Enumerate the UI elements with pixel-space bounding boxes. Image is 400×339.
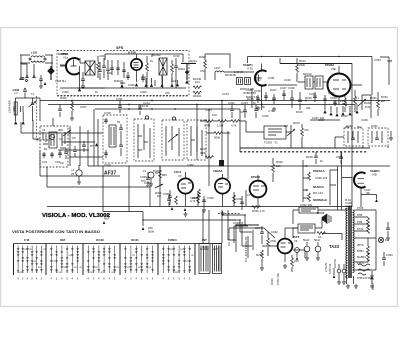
svg-text:R7: R7	[90, 144, 94, 148]
bus wire B	[48, 104, 355, 106]
junction dots mid bus	[128, 108, 176, 110]
grounds under box	[120, 83, 179, 87]
INT box 2	[213, 244, 222, 274]
arrow L300	[103, 221, 106, 224]
resistor R312 zig	[205, 156, 213, 159]
svg-text:C317: C317	[280, 86, 287, 90]
ground 35T6	[283, 264, 287, 268]
svg-text:5/10: 5/10	[146, 184, 152, 188]
stepped wires volume	[222, 215, 258, 243]
svg-text:L36: L36	[33, 261, 36, 263]
svg-text:12k: 12k	[276, 164, 281, 168]
svg-text:C360: C360	[187, 163, 194, 167]
svg-text:S34: S34	[74, 267, 77, 269]
keyboard top rail	[14, 243, 223, 245]
svg-text:470k: 470k	[270, 239, 277, 243]
label C327 row	[310, 119, 340, 121]
box A parts	[348, 131, 358, 143]
svg-text:C321: C321	[328, 91, 335, 95]
svg-text:C352 100: C352 100	[300, 203, 313, 207]
keyboard contact columns	[17, 246, 194, 275]
cap C361	[168, 196, 172, 197]
svg-text:PAROLA: PAROLA	[313, 169, 325, 173]
svg-text:C323: C323	[241, 101, 248, 105]
svg-text:1,5M: 1,5M	[217, 124, 224, 128]
wires 6TB32	[298, 64, 362, 86]
ground left a	[39, 84, 43, 88]
svg-text:F M: F M	[24, 238, 30, 242]
svg-text:L35: L35	[132, 255, 135, 257]
tap resistors	[367, 218, 370, 226]
resistor R330	[272, 164, 275, 172]
osc cluster circle	[49, 134, 54, 139]
svg-text:C8: C8	[72, 136, 76, 140]
svg-text:C319: C319	[284, 78, 291, 82]
svg-text:C9: C9	[60, 161, 64, 165]
capacitor C305	[81, 79, 85, 80]
svg-text:L302 5H: L302 5H	[55, 79, 66, 83]
ground electrolytic	[77, 180, 81, 184]
svg-text:54: 54	[117, 120, 121, 124]
svg-text:4,7k: 4,7k	[231, 124, 237, 128]
svg-text:C327: C327	[318, 118, 325, 122]
svg-text:50uF: 50uF	[314, 238, 321, 242]
svg-text:AF37: AF37	[104, 171, 116, 177]
svg-text:4,7k: 4,7k	[268, 109, 274, 113]
svg-text:C4: C4	[59, 137, 63, 141]
top mid extra strings	[290, 90, 302, 110]
cathode resistor	[291, 258, 294, 266]
IF3 arrow	[166, 126, 179, 156]
wires R row	[200, 120, 246, 122]
svg-text:R316: R316	[296, 110, 303, 114]
svg-text:R38: R38	[170, 249, 173, 251]
svg-text:MuF: MuF	[104, 217, 110, 221]
svg-text:C329: C329	[361, 118, 368, 122]
resistor R323	[377, 100, 380, 108]
tube 12BA6	[215, 178, 230, 193]
svg-text:R320: R320	[341, 114, 348, 118]
resistor R402	[175, 196, 178, 204]
rectifier diode	[370, 276, 374, 279]
eye tube 5GBP1 lower	[354, 172, 366, 187]
svg-text:1M: 1M	[381, 99, 386, 103]
svg-text:MUSICA: MUSICA	[313, 185, 324, 189]
svg-text:E313: E313	[371, 283, 375, 290]
arrow down T	[185, 80, 189, 84]
resistor R309	[204, 60, 207, 68]
T junction after box	[181, 63, 196, 80]
filled connector block	[219, 160, 224, 167]
svg-text:6,3: 6,3	[385, 238, 389, 242]
svg-text:R317: R317	[270, 88, 277, 92]
svg-text:L39: L39	[148, 267, 151, 269]
resistor R321	[354, 96, 357, 104]
resistor zig a	[193, 86, 201, 89]
osc caps	[42, 150, 62, 158]
ground in box	[81, 84, 85, 88]
svg-text:22k: 22k	[306, 106, 311, 110]
dashed bus bottom	[57, 95, 189, 97]
svg-text:470: 470	[165, 91, 170, 95]
mains wires	[339, 264, 354, 284]
resistor R328	[233, 195, 236, 203]
svg-text:S35: S35	[138, 267, 141, 269]
coil L301	[20, 55, 53, 63]
resistor R305	[205, 120, 213, 123]
cap right rail	[386, 228, 390, 229]
svg-text:50k: 50k	[357, 125, 362, 129]
IF trafo box right	[305, 76, 323, 89]
svg-text:C1: C1	[42, 128, 46, 132]
svg-text:C314: C314	[240, 110, 247, 114]
svg-text:C328: C328	[330, 96, 337, 100]
tube 35T6 wires	[229, 228, 305, 258]
svg-text:C334: C334	[236, 197, 243, 201]
mixer dots	[69, 132, 89, 158]
svg-text:6TB: 6TB	[357, 213, 362, 217]
junction dots bus	[71, 100, 307, 106]
wire switch right	[330, 170, 338, 205]
ground t1	[14, 121, 17, 124]
electrolytic C351	[315, 246, 321, 252]
svg-text:NORMALE: NORMALE	[313, 198, 327, 202]
dashed IF box 4	[187, 120, 206, 160]
svg-text:R30: R30	[120, 81, 126, 85]
svg-text:0,5M: 0,5M	[268, 76, 275, 80]
bus wire A	[40, 100, 390, 102]
ground diode	[370, 284, 374, 288]
svg-text:C324: C324	[205, 108, 212, 112]
svg-text:25: 25	[71, 172, 75, 176]
svg-text:R325 4,7k: R325 4,7k	[252, 209, 265, 213]
svg-text:L307: L307	[214, 66, 221, 70]
resistor R euro style	[14, 102, 17, 115]
svg-text:560k: 560k	[214, 136, 221, 140]
wires inside box left	[58, 54, 105, 88]
svg-text:MF302: MF302	[152, 53, 161, 57]
fuse a	[337, 269, 341, 273]
svg-text:470k: 470k	[12, 105, 16, 112]
svg-text:C326: C326	[262, 114, 269, 118]
electrolytic +3	[76, 170, 82, 176]
pot P303	[287, 125, 295, 140]
caps cluster mid	[256, 90, 286, 104]
TA33 secondary winding	[353, 210, 355, 273]
grounds under 6TB32 (arrow style)	[323, 110, 358, 116]
svg-text:C318: C318	[288, 86, 295, 90]
pot arrow P302	[358, 95, 366, 110]
IF1 caps	[104, 118, 123, 158]
dashed IF box 1	[103, 115, 127, 163]
mixer trimmer arrow	[63, 130, 71, 136]
cap C347	[366, 193, 370, 194]
svg-text:C312: C312	[143, 101, 150, 105]
TA33 core	[349, 206, 351, 278]
tube 6TB32 top	[328, 74, 351, 97]
bus wire mid	[95, 108, 240, 110]
svg-text:L34: L34	[79, 267, 82, 269]
speaker	[322, 214, 327, 224]
trimmer marks	[21, 106, 24, 112]
IF transformer MF301	[85, 61, 95, 75]
switch arrows	[306, 165, 308, 191]
svg-text:220: 220	[294, 259, 299, 263]
svg-text:C37: C37	[43, 249, 46, 251]
svg-text:R313: R313	[293, 121, 300, 125]
heater squiggles	[358, 264, 370, 275]
svg-text:R31: R31	[29, 249, 32, 251]
svg-text:R31: R31	[180, 249, 183, 251]
resistor R311	[301, 128, 304, 136]
cap on antenna wire	[23, 90, 27, 91]
svg-text:5GBP1: 5GBP1	[357, 255, 366, 259]
svg-text:R1010: R1010	[193, 94, 202, 98]
svg-text:1M: 1M	[157, 194, 162, 198]
svg-text:C34: C34	[68, 255, 71, 257]
coil L307	[215, 71, 232, 80]
svg-text:L3: L3	[143, 169, 147, 173]
trimmer caps row under tube V2	[110, 60, 126, 78]
svg-text:6T06: 6T06	[357, 206, 364, 210]
ground arrows 12C4	[171, 207, 187, 211]
resistor R329 zig	[252, 206, 260, 209]
resistor R310	[296, 64, 299, 72]
grounds tube row	[184, 212, 188, 216]
pilot lamp	[378, 237, 383, 242]
heater taps	[355, 210, 377, 270]
resistor zig b	[193, 91, 201, 94]
svg-text:C352 10k: C352 10k	[276, 272, 280, 285]
svg-text:V5b: V5b	[331, 67, 336, 71]
svg-text:C342: C342	[271, 230, 278, 234]
bus AF37	[88, 165, 390, 167]
svg-text:ALT: ALT	[213, 247, 218, 251]
IF transformer MF302	[159, 58, 167, 75]
svg-text:+C: +C	[14, 91, 18, 95]
osc wires	[33, 118, 150, 187]
arrow C347	[375, 199, 378, 202]
extra cap string top box	[98, 62, 102, 80]
circled node 6	[145, 116, 148, 119]
svg-text:S3B: S3B	[387, 59, 392, 63]
keyboard feed verticals	[203, 210, 236, 243]
svg-text:6TB4: 6TB4	[357, 249, 364, 253]
svg-text:C347: C347	[364, 188, 371, 192]
svg-text:R300: R300	[60, 96, 67, 100]
wires wave boxes	[335, 137, 388, 148]
svg-text:C33: C33	[116, 267, 119, 269]
osc cluster marks	[43, 132, 66, 148]
hanging cap under bus	[58, 105, 62, 118]
mixer coupling wires	[58, 126, 103, 166]
box C100 upper	[299, 207, 318, 213]
tube V1 6TB (C shape)	[66, 58, 80, 74]
svg-text:RO-134: RO-134	[313, 191, 323, 195]
dashed IF box 2	[134, 119, 154, 161]
ground t2	[22, 121, 25, 124]
svg-text:R38: R38	[63, 267, 66, 269]
caps under 6TB32	[313, 92, 337, 106]
svg-text:1M: 1M	[284, 124, 289, 128]
svg-text:100: 100	[212, 113, 217, 117]
trimmer arrow 12C4	[155, 184, 163, 188]
junction dots top wire	[261, 56, 340, 58]
svg-text:C322: C322	[228, 101, 235, 105]
svg-text:R314: R314	[190, 59, 197, 63]
cap string box b	[126, 72, 155, 86]
mains grounds	[337, 280, 341, 284]
arrow near box1	[95, 143, 98, 146]
bus wires y206	[47, 166, 352, 207]
svg-text:C313: C313	[222, 92, 229, 96]
AVC arrows	[20, 75, 35, 80]
svg-text:V 30: V 30	[247, 67, 253, 71]
svg-text:368: 368	[58, 128, 63, 132]
resistor R308 560k	[214, 132, 222, 135]
volume pot wires	[236, 222, 258, 258]
svg-text:470: 470	[141, 75, 146, 79]
box B parts	[372, 131, 382, 143]
capacitor C308	[174, 58, 178, 78]
parts under AF37 bus	[159, 170, 162, 178]
verticals left of IF box1	[21, 109, 98, 166]
svg-text:3,3M: 3,3M	[204, 124, 211, 128]
svg-text:6T32: 6T32	[357, 227, 364, 231]
heavy bus solid	[240, 147, 370, 149]
svg-text:R304: R304	[178, 67, 185, 71]
svg-text:P.U. ALTA FEDELTA: P.U. ALTA FEDELTA	[244, 237, 248, 262]
svg-text:P.U. VOLUME: P.U. VOLUME	[227, 228, 231, 246]
stub caps under bus	[118, 101, 142, 116]
IF4 contacts	[191, 126, 202, 156]
TA33 primary winding	[346, 208, 348, 278]
speaker wires	[293, 217, 322, 238]
arrow down black	[44, 82, 47, 85]
keyboard section dividers	[14, 244, 196, 276]
svg-text:12BA6: 12BA6	[213, 169, 223, 173]
ground hanging	[70, 116, 74, 120]
wires under 12C4	[103, 166, 143, 226]
cap string box a	[102, 58, 110, 80]
electrolytic C350	[304, 246, 310, 252]
wire right drop	[268, 58, 297, 85]
svg-text:MF310: MF310	[303, 72, 312, 76]
svg-text:C72: C72	[247, 193, 253, 197]
svg-text:C307: C307	[80, 105, 87, 109]
svg-text:R331: R331	[202, 245, 209, 249]
left osc cluster box	[40, 126, 68, 167]
svg-text:47k: 47k	[200, 69, 205, 73]
svg-text:6TB: 6TB	[357, 220, 362, 224]
svg-text:R400: R400	[153, 169, 160, 173]
svg-text:R303: R303	[114, 79, 121, 83]
svg-text:R32: R32	[175, 272, 178, 274]
tube 6TB32 mid	[250, 181, 267, 198]
diamond on vertical	[185, 70, 189, 74]
resistor R327	[197, 195, 200, 203]
resistor R403	[198, 189, 201, 197]
output transformer T306	[298, 224, 315, 233]
cap C348	[260, 232, 264, 233]
antenna terminal	[22, 78, 24, 80]
right drop wires	[352, 85, 371, 207]
svg-text:OC31: OC31	[131, 238, 139, 242]
svg-text:C310: C310	[173, 54, 180, 58]
fuse b	[342, 269, 346, 273]
tube eye 5GBP1 (C shape)	[255, 70, 267, 85]
svg-text:C353 31: C353 31	[328, 263, 332, 274]
svg-text:C318: C318	[104, 111, 111, 115]
trimmer T1 arrow	[29, 98, 37, 121]
svg-text:C32: C32	[24, 249, 27, 251]
svg-text:0,1: 0,1	[355, 96, 359, 100]
ground under 143	[142, 227, 145, 230]
svg-text:C35: C35	[100, 272, 103, 274]
resistor R338 zig	[317, 232, 325, 235]
resistor R307	[231, 120, 239, 123]
output tube 35T6	[278, 239, 293, 254]
ground box B	[390, 131, 392, 136]
svg-text:L39: L39	[53, 261, 56, 263]
svg-text:FLR: FLR	[342, 102, 347, 106]
circle cap C361b	[148, 172, 154, 178]
grounds electrolytics	[305, 256, 309, 260]
hanging resistor under bus	[71, 102, 74, 110]
svg-text:C330: C330	[346, 124, 353, 128]
svg-text:C31: C31	[42, 160, 48, 164]
ground right rail	[386, 236, 390, 240]
svg-text:L32: L32	[191, 255, 194, 257]
caps row under bus	[230, 105, 258, 118]
svg-text:4,7k: 4,7k	[190, 199, 196, 203]
svg-text:C319: C319	[104, 163, 111, 167]
IF1 winding	[109, 125, 116, 147]
wire antenna down	[21, 55, 52, 77]
long verticals center	[197, 101, 240, 187]
top distribution wire	[248, 57, 390, 96]
coil L302 ferrite	[48, 66, 54, 80]
svg-text:C309: C309	[140, 90, 147, 94]
resistor in box c	[171, 64, 174, 72]
IF trafo box a	[237, 78, 243, 85]
dashed box SFS IF unit	[57, 51, 189, 96]
svg-text:OM: OM	[60, 238, 65, 242]
heavy dashed bus	[240, 151, 368, 153]
capacitor C302	[39, 79, 43, 80]
switch vertical	[303, 160, 308, 202]
svg-text:C336: C336	[207, 196, 214, 200]
svg-text:C304: C304	[99, 54, 106, 58]
ground arrow under V1	[78, 88, 81, 91]
svg-text:6TB4 6T06: 6TB4 6T06	[357, 276, 371, 280]
svg-text:R336: R336	[270, 278, 274, 285]
cap C366	[146, 178, 150, 179]
stub caps under heavy bus	[314, 152, 343, 164]
dashed IF box 3	[162, 120, 184, 160]
wires to TA33 top	[293, 210, 347, 240]
svg-text:S35: S35	[186, 261, 189, 263]
dashed corner left	[37, 96, 51, 140]
svg-text:S32: S32	[127, 267, 130, 269]
IF2 contacts	[138, 124, 150, 158]
svg-text:C346-134: C346-134	[315, 176, 328, 180]
svg-text:L301: L301	[31, 51, 38, 55]
right rail	[375, 210, 377, 270]
osc coil	[49, 132, 57, 148]
svg-text:47k: 47k	[304, 128, 309, 132]
svg-text:C331: C331	[371, 124, 378, 128]
